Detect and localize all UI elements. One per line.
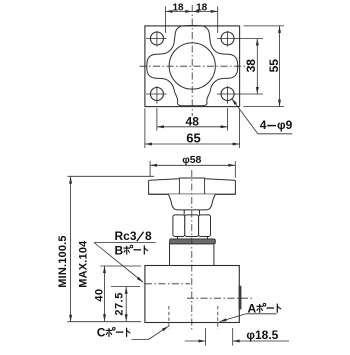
knob neck (168, 194, 215, 210)
svg-text:MIN.100.5: MIN.100.5 (57, 235, 69, 288)
dim 65 line (145, 143, 240, 145)
hole centerline vertical bottom-left (156, 86, 158, 104)
hole centerlines horizontal left row bottom (146, 93, 167, 95)
C port hidden centerline (168, 306, 170, 329)
svg-text:27.5: 27.5 (113, 292, 125, 315)
collar plate (dark) (170, 239, 216, 244)
svg-text:4: 4 (260, 118, 267, 132)
B port axis dash-dot (145, 283, 190, 285)
svg-text:MAX.104: MAX.104 (78, 240, 90, 288)
knob underside line (149, 193, 236, 195)
svg-text:φ9: φ9 (277, 118, 293, 132)
svg-text:φ58: φ58 (182, 154, 201, 166)
dim phi18.5 extension lines (205, 328, 207, 346)
A port opening thick bar on right face (239, 286, 242, 310)
dim 48 arrows (157, 125, 164, 128)
bolt hole 2 (phi 9) (221, 32, 234, 45)
dim 27.5 line (125, 287, 127, 322)
svg-text:8: 8 (145, 229, 152, 243)
dim MIN/MAX extension top (68, 175, 155, 177)
dim 40 arrows (103, 266, 106, 273)
dim 18+18 line (166, 10, 218, 12)
label Rc3/8 leader (94, 242, 156, 244)
flange horizontal centerline (140, 65, 250, 67)
dim 55 extension lines (244, 25, 285, 27)
svg-text:B: B (115, 243, 124, 257)
svg-text:55: 55 (267, 59, 281, 73)
bolt hole 4 (phi 9) (221, 88, 234, 101)
hole centerlines horizontal right row top (extends to 38-dim) (217, 38, 263, 40)
stem between knob and nut (183, 210, 185, 215)
dim phi58 line (150, 164, 235, 166)
handwheel hub side edges (178, 179, 180, 195)
valve vertical centerline (191, 170, 193, 331)
dim phi58 extension lines (149, 161, 151, 176)
dim 48 line (157, 126, 228, 128)
hole centerline vertical bottom-right (227, 86, 229, 104)
valve body block (145, 266, 239, 323)
bolt hole 3 (phi 9) (150, 88, 163, 101)
dim 55 arrows (278, 26, 281, 33)
dim 27.5 arrows (125, 287, 128, 294)
hole centerlines horizontal left row top (146, 38, 167, 40)
stem ticks below nut (177, 237, 179, 239)
svg-text:Rc3: Rc3 (115, 229, 137, 243)
hole centerline vertical top-left (156, 31, 158, 47)
handwheel knob silhouette (149, 178, 236, 194)
dim 55 line (279, 26, 281, 107)
dim 38 arrows (256, 39, 259, 46)
dim phi18.5 line (185, 340, 206, 342)
label A port leader (246, 313, 277, 315)
svg-text:18: 18 (172, 2, 184, 13)
dim 40 line (104, 266, 106, 321)
svg-text:A: A (248, 302, 257, 316)
flange boss clover outline (147, 25, 238, 105)
hole centerlines horizontal right row bottom (extends to 38-dim) (217, 93, 263, 95)
A port hidden centerline (217, 306, 219, 329)
dim 18+18 extension lines (165, 7, 167, 34)
svg-text:C: C (97, 326, 106, 340)
flange vertical centerline (191, 5, 193, 116)
label C port leader (132, 339, 149, 341)
dim 65 arrows (145, 143, 152, 146)
svg-text:φ18.5: φ18.5 (246, 328, 278, 342)
dim 40 extension top (100, 265, 141, 267)
A port axis dash-dot (187, 297, 253, 299)
hole centerline vertical top-right (227, 31, 229, 47)
hex nut facet right (199, 215, 211, 237)
dim 48 extension lines (156, 108, 158, 131)
dim phi58 arrows (150, 164, 157, 167)
svg-text:65: 65 (186, 131, 200, 146)
hex nut facet middle (185, 215, 199, 237)
dim MIN/MAX arrows (69, 177, 72, 184)
svg-text:40: 40 (93, 288, 105, 301)
dim phi18.5 arrows (199, 340, 206, 343)
bolt hole 1 (phi 9) (150, 32, 163, 45)
dim 27.5 extension top (111, 286, 140, 288)
dim 38 line (256, 39, 258, 95)
flange center bore circle (169, 43, 215, 89)
svg-text:38: 38 (244, 59, 258, 73)
dim 65 extension lines (144, 109, 146, 149)
label 4-phi9 leader (232, 98, 258, 133)
svg-text:18: 18 (196, 2, 208, 13)
dim MIN/MAX line (70, 177, 72, 322)
svg-text:48: 48 (186, 115, 200, 129)
dim MIN/MAX extension bottom (68, 321, 142, 323)
dim 18+18 arrows (166, 10, 173, 13)
bonnet block (170, 244, 214, 266)
flange plate outline (145, 26, 240, 107)
hex nut facet left (173, 215, 185, 237)
